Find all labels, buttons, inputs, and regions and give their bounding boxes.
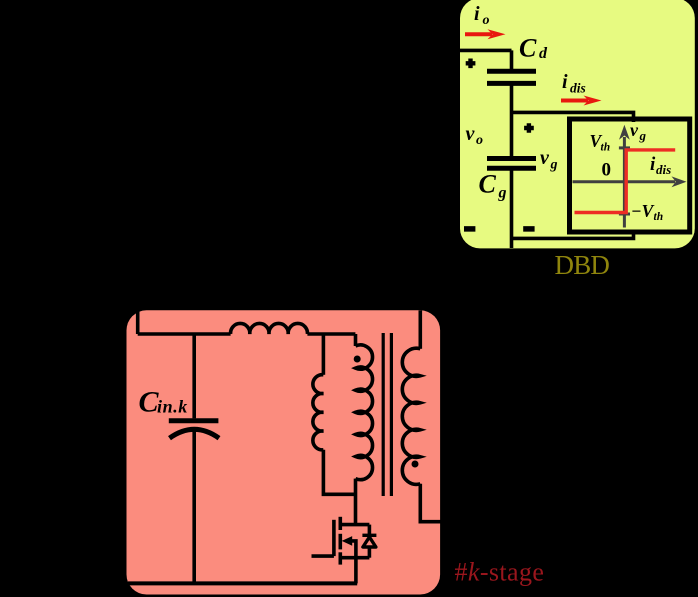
svg-text:−V: −V — [631, 201, 655, 221]
svg-text:th: th — [654, 211, 664, 223]
capacitor C_in.k wire bottom — [192, 430, 196, 584]
label i_o — [474, 3, 490, 28]
svg-text:0: 0 — [602, 160, 612, 181]
wire Cd to junction to Cg — [510, 83, 514, 161]
wire to primary left winding — [322, 334, 326, 375]
body diode cathode bar — [362, 534, 376, 537]
label v_o — [466, 123, 484, 148]
minus sign v_o — [464, 226, 475, 232]
label Cg — [479, 170, 507, 202]
svg-text:g: g — [498, 185, 507, 202]
wire vertical from top wire to Cd — [510, 50, 514, 69]
transformer primary main winding top stub — [354, 334, 358, 346]
input stub wire — [136, 310, 140, 334]
transformer primary left winding — [313, 375, 324, 450]
svg-text:DBD: DBD — [555, 250, 610, 280]
mosfet drain bar — [340, 523, 369, 527]
capacitor Cg — [487, 159, 536, 169]
svg-text:in.k: in.k — [157, 397, 188, 417]
graph label V_th — [590, 131, 611, 154]
polarity dot secondary — [412, 461, 419, 468]
svg-text:v: v — [466, 123, 476, 145]
wire primary winding to mosfet drain — [354, 479, 358, 525]
secondary winding bottom wire — [420, 484, 440, 522]
wire Cg to bottom — [510, 168, 514, 248]
svg-text:o: o — [476, 133, 483, 148]
inductor L — [231, 323, 308, 334]
svg-text:#k-stage: #k-stage — [455, 558, 545, 587]
#k-stage title — [455, 558, 545, 587]
body diode branch bottom — [368, 547, 372, 558]
plus sign v_o — [466, 59, 476, 69]
transformer secondary winding — [402, 348, 420, 484]
wire junction to DBD graph box top — [512, 112, 634, 122]
DBD graph frame — [570, 119, 690, 232]
label v_g — [540, 147, 558, 173]
graph horizontal axis i_dis — [573, 176, 687, 187]
capacitor C_in.k wire top — [192, 334, 196, 418]
current arrow i_dis — [561, 96, 602, 106]
svg-text:C: C — [519, 34, 537, 63]
svg-text:g: g — [550, 158, 558, 173]
mosfet source bar — [340, 556, 369, 560]
polarity dot primary — [354, 356, 361, 363]
svg-text:i: i — [562, 71, 568, 93]
svg-text:g: g — [639, 128, 647, 143]
wire bottom to DBD graph box bottom — [512, 231, 634, 238]
mosfet Q gate lead — [312, 554, 334, 558]
#k-stage background box — [127, 310, 441, 594]
transformer core — [383, 333, 391, 496]
label i_dis — [562, 71, 586, 96]
svg-text:v: v — [630, 120, 639, 140]
svg-text:o: o — [483, 13, 490, 28]
svg-text:dis: dis — [656, 162, 671, 177]
current arrow i_o — [465, 29, 506, 39]
svg-text:C: C — [479, 170, 497, 199]
svg-text:th: th — [601, 142, 611, 154]
DBD title — [555, 250, 610, 280]
svg-text:v: v — [540, 147, 550, 169]
body diode triangle — [363, 537, 376, 547]
top wire right — [307, 332, 355, 336]
capacitor C_in.k plates — [169, 421, 219, 438]
graph label 0 — [602, 160, 612, 181]
minus sign v_g — [523, 226, 534, 232]
body diode branch top — [368, 525, 372, 536]
graph label v_g — [630, 120, 647, 143]
graph vertical axis v_g — [619, 125, 630, 228]
wire top-left input — [459, 49, 512, 53]
wire primary left winding bottom — [323, 450, 355, 495]
bottom rail — [128, 581, 357, 585]
red hysteresis curve — [575, 150, 676, 213]
graph label -Vth — [631, 201, 663, 223]
mosfet body arrow — [342, 536, 356, 558]
tick Vth — [619, 146, 630, 149]
svg-text:i: i — [474, 3, 480, 25]
label C_in.k — [139, 386, 188, 419]
capacitor Cd — [487, 71, 536, 83]
plus sign v_g — [524, 123, 534, 133]
label Cd — [519, 34, 548, 63]
transformer primary main winding — [356, 345, 373, 480]
secondary winding top wire — [418, 310, 422, 348]
mosfet source wire to rail — [354, 558, 358, 584]
svg-text:d: d — [539, 45, 548, 62]
top wire left — [138, 332, 231, 336]
graph label i_dis — [650, 154, 671, 177]
svg-text:dis: dis — [570, 81, 586, 96]
mosfet gate bar — [332, 520, 336, 556]
DBD model background box — [460, 0, 695, 248]
tick -Vth — [619, 213, 630, 216]
mosfet channel segments — [338, 517, 342, 565]
